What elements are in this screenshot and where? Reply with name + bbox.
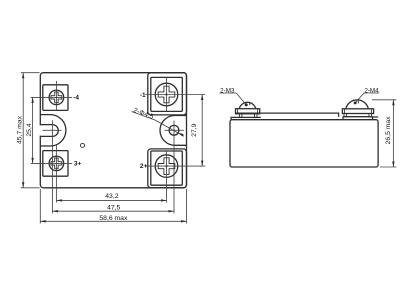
svg-text:-4: -4 — [73, 94, 79, 101]
center line vertical screw TL — [55, 81, 57, 111]
dimension line 27.9 — [201, 95, 203, 167]
arrow 43.2 right — [161, 199, 167, 201]
terminal square BR inner — [151, 151, 183, 185]
right mounting notch — [160, 116, 186, 146]
M3 screw slot — [249, 102, 251, 105]
svg-text:2-M4: 2-M4 — [364, 87, 379, 94]
arrow 58.6 left — [40, 220, 46, 222]
screw BR phillips cross — [158, 158, 175, 175]
svg-text:3+: 3+ — [74, 160, 82, 167]
svg-text:43,2: 43,2 — [105, 193, 118, 200]
svg-text:47,5: 47,5 — [107, 205, 120, 212]
M4 washer inner ticks — [345, 109, 372, 114]
center line horizontal screw BL — [31, 162, 72, 164]
dot leader M3 — [245, 103, 248, 106]
screw BR circle — [155, 155, 178, 178]
center line vertical screw BR + ext — [166, 151, 168, 203]
dot leader M4 — [354, 101, 357, 104]
M4 screw dome — [346, 100, 369, 109]
arrow 45.7 top — [22, 73, 24, 79]
center line horizontal slot — [42, 129, 61, 131]
arrow 45.7 bottom — [22, 182, 24, 188]
screw TR phillips cross — [158, 86, 175, 103]
extension line 26.5 top — [372, 99, 396, 101]
svg-text:25,4: 25,4 — [26, 123, 33, 136]
center line horizontal hole — [165, 129, 184, 131]
leader 2-M4 — [356, 93, 380, 103]
LED indicator — [81, 143, 85, 147]
dimension line 25.4 — [32, 97, 34, 163]
extension line 45.7 bottom — [21, 187, 40, 189]
M4 screw slot — [357, 100, 359, 104]
M3 terminal washer — [236, 109, 260, 114]
center line vertical screw TR — [166, 77, 168, 112]
arrow 43.2 left — [56, 199, 62, 201]
body outline front view — [40, 73, 186, 188]
terminal block BR outer — [148, 149, 187, 188]
extension line 26.5 bottom — [380, 166, 396, 168]
center line horizontal screw TL — [31, 96, 72, 98]
svg-text:-1: -1 — [140, 92, 146, 99]
right mounting hole — [169, 125, 179, 135]
extension line 45.7 top — [21, 72, 40, 74]
arrow 47.5 right — [169, 210, 175, 212]
center line vertical slot + ext to 47.5 — [51, 120, 53, 213]
terminal square TR inner — [151, 77, 183, 111]
M4 terminal washer — [342, 109, 373, 114]
M4 terminal feet — [344, 114, 347, 117]
center line horizontal screw TR — [145, 94, 205, 96]
dimension line 43.2 — [56, 199, 166, 201]
arrow 26.5 top — [392, 100, 394, 106]
terminal square TL — [43, 85, 68, 111]
dimension line 26.5 — [392, 100, 394, 167]
screw TL circle — [49, 90, 64, 105]
arrow 27.9 bottom — [201, 161, 203, 167]
side view body — [230, 120, 378, 167]
side view right plinth — [343, 117, 378, 120]
terminal square BL — [43, 151, 68, 177]
dimension line 45.7 — [22, 73, 24, 188]
arrow 25.4 bottom — [31, 158, 33, 164]
side view top plate — [236, 113, 339, 117]
extension line 58.6 right — [186, 189, 188, 224]
center line vertical screw BL + ext to 43.2 — [55, 145, 57, 202]
screw center dots — [56, 93, 168, 167]
center line vertical hole + ext to 47.5 — [173, 121, 175, 214]
svg-text:2-M3: 2-M3 — [220, 87, 235, 94]
svg-text:26,5 max: 26,5 max — [385, 116, 392, 145]
M3 terminal feet — [239, 114, 242, 118]
dimension line 47.5 — [52, 210, 174, 212]
left mounting slot inner — [40, 125, 58, 137]
center line horizontal screw BR — [145, 165, 205, 167]
left mounting slot outer — [40, 115, 66, 146]
svg-text:58,6 max: 58,6 max — [99, 215, 128, 222]
M3 washer inner ticks — [238, 109, 258, 114]
screw TL phillips cross — [51, 92, 62, 103]
screw BL phillips cross — [51, 158, 62, 169]
svg-text:2+: 2+ — [140, 163, 148, 170]
screw TR circle — [155, 83, 178, 106]
side view left steps — [231, 117, 261, 119]
arrow 47.5 left — [52, 210, 58, 212]
arrow 25.4 top — [31, 97, 33, 103]
leader line 2-phi4.5 — [132, 112, 185, 137]
arrow 26.5 bottom — [392, 162, 394, 168]
arrow 58.6 right — [181, 220, 187, 222]
screw BL circle — [49, 156, 64, 171]
dimension line 58.6 — [40, 220, 186, 222]
arrow leader 4.5 — [178, 133, 183, 137]
leader 2-M3 — [220, 93, 247, 105]
arrow 27.9 top — [201, 95, 203, 101]
svg-text:45,7 max: 45,7 max — [17, 115, 24, 144]
M3 screw dome — [239, 102, 256, 108]
svg-text:27,9: 27,9 — [191, 123, 198, 136]
slot mouth opening — [39, 125, 42, 135]
extension line 58.6 left — [39, 189, 41, 224]
terminal block TR outer — [148, 73, 187, 115]
